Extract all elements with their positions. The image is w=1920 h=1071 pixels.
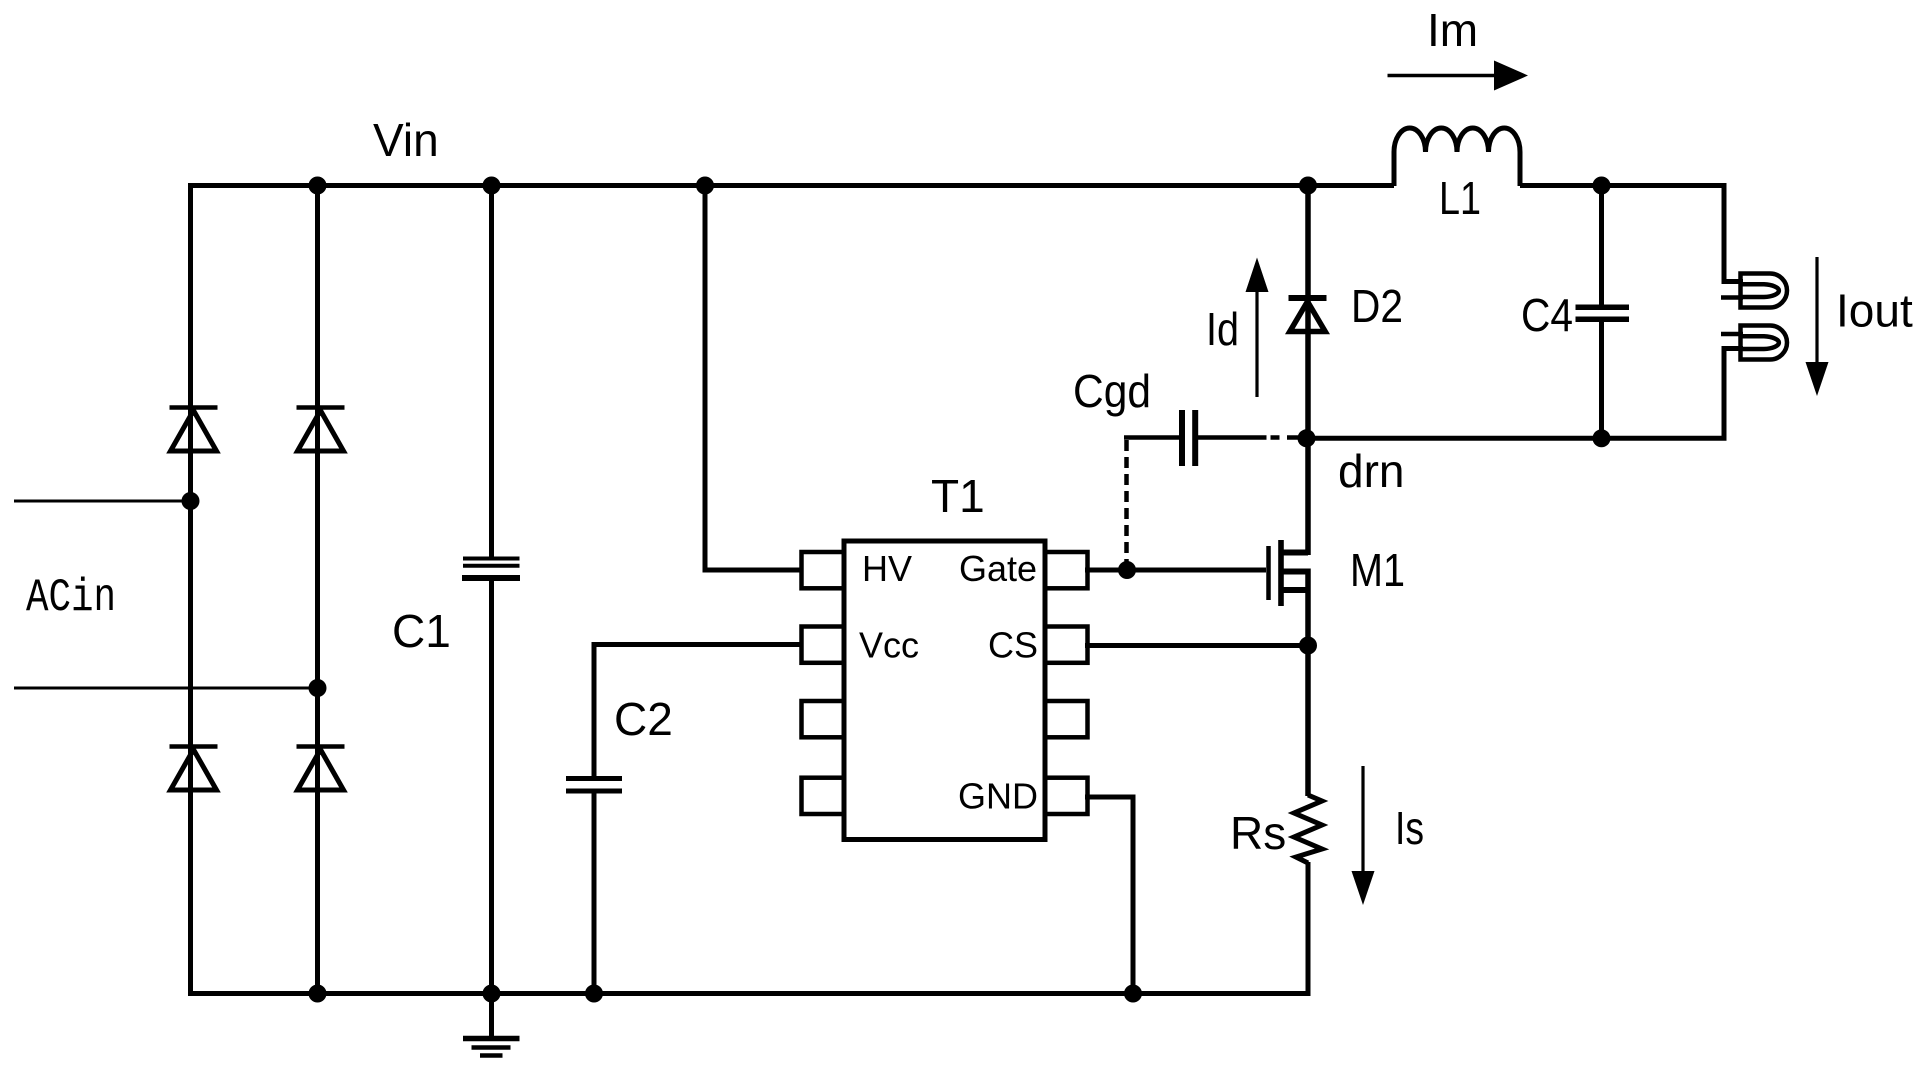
node Vin junction at C1 (483, 177, 501, 195)
arrow Im (1388, 61, 1529, 91)
svg-text:Cgd: Cgd (1073, 365, 1151, 417)
capacitor C1 (462, 559, 520, 579)
svg-text:T1: T1 (931, 470, 985, 522)
svg-text:L1: L1 (1439, 172, 1481, 224)
pin 3 box (802, 701, 845, 737)
diode D2 (1289, 298, 1327, 332)
arrow Iout (1806, 257, 1829, 396)
wire ground stem (489, 994, 494, 1038)
svg-text:C4: C4 (1521, 289, 1573, 341)
node drn junction (1298, 429, 1316, 447)
wire dashed gate to Cgd (1124, 440, 1129, 570)
node junction at C4 top (1593, 177, 1611, 195)
node ground junction C1 (483, 985, 501, 1003)
capacitor Cgd symbol and wires (1124, 410, 1298, 466)
node Vin junction at bridge leg 2 (309, 177, 327, 195)
wire GND pin to ground rail (1085, 797, 1133, 994)
wire second bridge leg vertical (315, 186, 320, 994)
pin 5 GND box (1045, 778, 1088, 814)
pin 1 HV box (802, 552, 845, 588)
wire ACin line 1 (14, 500, 191, 503)
svg-text:M1: M1 (1350, 544, 1405, 596)
wire bottom ground rail (188, 991, 1311, 996)
pin 4 box (802, 778, 845, 814)
wire C2 branch lower (592, 793, 597, 994)
IC T1 body (844, 541, 1045, 840)
wire C1 branch lower (489, 580, 494, 994)
ground (463, 1039, 520, 1056)
node ACin junction 1 (182, 492, 200, 510)
svg-text:D2: D2 (1351, 280, 1403, 332)
svg-text:drn: drn (1338, 445, 1404, 497)
wire drain vertical (1305, 438, 1311, 555)
wire gate (1085, 568, 1266, 573)
diode D1d bridge bottom-right (297, 747, 345, 791)
wire C4 branch upper (1599, 186, 1604, 306)
wire load branch lower (1724, 349, 1743, 439)
wire D2 branch vertical (1305, 186, 1311, 439)
svg-text:Id: Id (1206, 303, 1239, 355)
diode D1b bridge top-right (297, 408, 345, 452)
wire drn horizontal to load (1308, 436, 1727, 441)
inductor L1 (1394, 128, 1520, 186)
wire left bridge leg vertical (188, 183, 193, 996)
node Vin junction at D2 branch (1299, 177, 1317, 195)
LED lamp 2 (1721, 326, 1787, 360)
diode D1c bridge bottom-left (170, 747, 218, 791)
svg-text:GND: GND (958, 776, 1038, 817)
arrow Is (1352, 766, 1375, 905)
arrow Id (1246, 258, 1269, 398)
svg-text:Gate: Gate (959, 548, 1037, 589)
diode D1a bridge top-left (170, 408, 218, 452)
capacitor C4 (1576, 307, 1630, 319)
node ground junction GND wire (1124, 985, 1142, 1003)
resistor Rs (1294, 795, 1322, 863)
svg-text:Vcc: Vcc (859, 625, 919, 666)
svg-text:ACin: ACin (26, 572, 116, 624)
svg-text:C1: C1 (392, 605, 451, 657)
svg-text:Iout: Iout (1836, 285, 1913, 337)
wire Rs bottom vertical (1306, 862, 1311, 994)
transistor M1 (1269, 540, 1309, 606)
wire Vin top rail left segment (191, 183, 1395, 188)
svg-text:CS: CS (988, 625, 1038, 666)
pin 6 box (1045, 701, 1088, 737)
LED lamp 1 (1721, 274, 1787, 308)
wire CS (1085, 643, 1308, 648)
svg-text:Im: Im (1427, 4, 1478, 56)
capacitor C2 (566, 779, 622, 792)
svg-text:Rs: Rs (1230, 807, 1286, 859)
wire Vcc to C2 top (594, 645, 802, 778)
node ground junction bridge leg 2 (309, 985, 327, 1003)
svg-text:Vin: Vin (373, 114, 439, 166)
pin 2 Vcc box (802, 627, 845, 663)
wire source vertical (1305, 569, 1311, 797)
node Vin junction at HV branch (696, 177, 714, 195)
svg-text:C2: C2 (614, 693, 673, 745)
wire C1 branch upper (489, 186, 494, 558)
wire ACin line 2 (14, 687, 318, 690)
svg-text:HV: HV (862, 548, 912, 589)
pin 8 Gate box (1045, 552, 1088, 588)
wire load branch upper (1724, 186, 1743, 282)
svg-text:Is: Is (1395, 802, 1424, 854)
node CS junction (1299, 637, 1317, 655)
wire Vin top rail right segment (1520, 183, 1727, 188)
node gate junction (1118, 561, 1136, 579)
node ground junction C2 (585, 985, 603, 1003)
pin 7 CS box (1045, 627, 1088, 663)
wire HV branch (705, 186, 802, 571)
node C4 bottom junction (1593, 429, 1611, 447)
wire C4 branch lower (1599, 322, 1604, 438)
node ACin junction 2 (309, 679, 327, 697)
